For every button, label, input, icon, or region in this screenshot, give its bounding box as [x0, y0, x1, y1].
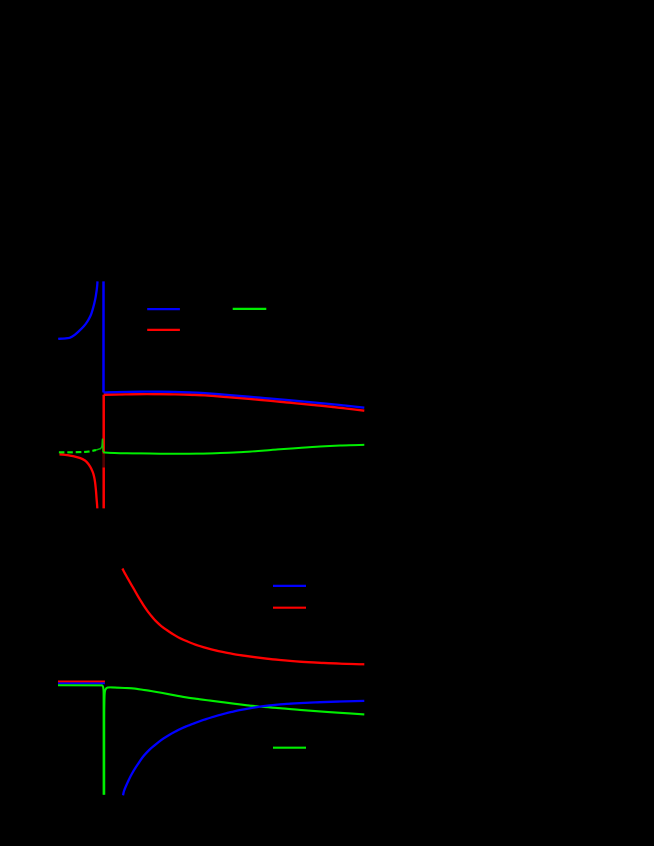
bottom plot: green curve right branch rising from below then decaying — [104, 687, 364, 794]
top plot: green dashed segment left of pole — [59, 450, 96, 452]
bottom plot: blue rising curve — [123, 701, 364, 795]
top plot: red curve left branch diving to -inf — [60, 454, 98, 508]
bottom plot: red decaying curve — [122, 569, 364, 665]
bottom plot: blue flat segment left of pole — [58, 682, 105, 684]
top plot: green curve right branch — [103, 445, 364, 454]
top plot: red vertical pole line — [102, 395, 105, 509]
top plot legend: green sample line — [233, 308, 267, 310]
top plot: blue vertical pole line and right branch — [102, 281, 105, 392]
bottom plot: red flat segment left of pole — [58, 680, 105, 682]
top plot: dark overlap segment on red pole line — [102, 454, 105, 468]
bottom plot: green flat segment and vertical drop at pole — [58, 685, 104, 795]
bottom plot legend: red sample line — [273, 607, 306, 609]
top plot legend: red sample line — [147, 329, 180, 331]
bottom plot legend: green sample line — [273, 747, 306, 749]
top plot: green curve spike at pole — [96, 439, 103, 452]
top plot: blue curve left branch rising to pole — [58, 281, 97, 339]
top plot: red curve right branch — [104, 394, 365, 411]
bottom plot legend: blue sample line — [273, 585, 306, 587]
top plot legend: blue sample line — [147, 308, 180, 310]
top plot: blue curve right branch — [104, 392, 365, 408]
